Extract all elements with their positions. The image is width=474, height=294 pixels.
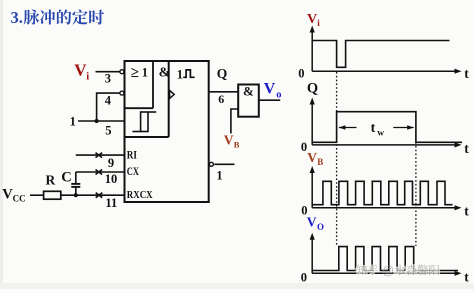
svg-text:11: 11 <box>105 196 117 210</box>
junction node on pin 5 wire <box>95 119 99 123</box>
waveform plot Vi label <box>307 12 320 28</box>
wire to pin 4 <box>97 92 120 94</box>
svg-text:t: t <box>464 141 469 156</box>
Q plot axes <box>301 98 469 157</box>
wire to pin 9 <box>76 154 125 156</box>
wire capacitor to pin11 net <box>75 188 77 196</box>
svg-text:V: V <box>307 12 317 27</box>
svg-text:B: B <box>234 140 240 150</box>
svg-text:1: 1 <box>216 169 222 183</box>
svg-text:3.: 3. <box>11 8 23 27</box>
svg-text:&: & <box>243 84 254 99</box>
U1 internal gate block: AND section divider <box>125 61 169 137</box>
wire to pin 10 <box>76 171 125 173</box>
svg-text:4: 4 <box>105 94 112 108</box>
svg-text:t: t <box>371 121 376 136</box>
svg-text:1: 1 <box>142 65 148 79</box>
svg-text:i: i <box>86 71 89 82</box>
junction node at capacitor bottom <box>74 193 78 197</box>
svg-text:w: w <box>377 128 384 138</box>
resistor R body <box>44 191 61 199</box>
svg-text:3: 3 <box>105 72 111 86</box>
svg-text:≥: ≥ <box>131 65 139 81</box>
svg-text:V: V <box>264 80 276 97</box>
svg-text:Q: Q <box>217 66 228 81</box>
label ≥1 (OR) <box>131 65 148 81</box>
svg-text:V: V <box>307 215 317 230</box>
waveform plot VB label <box>307 150 323 167</box>
svg-text:RI: RI <box>127 150 138 162</box>
svg-text:0: 0 <box>298 67 304 81</box>
svg-text:&: & <box>159 65 171 80</box>
supply label Vcc <box>2 187 25 204</box>
Vi waveform <box>312 41 449 68</box>
svg-text:CC: CC <box>13 194 26 204</box>
svg-text:10: 10 <box>105 172 118 186</box>
Vi plot axes <box>298 26 469 82</box>
pin 3 bubble <box>120 70 124 74</box>
wire pin 1 <box>214 163 234 165</box>
input label Vi <box>74 60 89 82</box>
open-connection mark pin 9 <box>96 153 103 158</box>
svg-text:RXCX: RXCX <box>127 189 153 201</box>
svg-text:@: @ <box>382 265 394 277</box>
svg-text:1: 1 <box>70 114 76 128</box>
svg-text:t: t <box>464 269 469 284</box>
input label VB <box>224 132 240 149</box>
VB plot axes <box>301 166 469 218</box>
svg-text:0: 0 <box>301 270 307 284</box>
svg-text:6: 6 <box>218 92 224 106</box>
svg-text:1: 1 <box>177 68 183 82</box>
title "3.脉冲的定时" <box>11 8 105 27</box>
open-connection mark pin 11 <box>96 193 103 198</box>
svg-text:9: 9 <box>108 156 114 170</box>
svg-text:R: R <box>46 173 56 188</box>
internal output arrow marker <box>170 90 175 98</box>
wire VB to U2 <box>231 109 238 134</box>
monostable U1 74121 outline <box>125 61 209 202</box>
dotted timing line t1 <box>336 72 338 246</box>
AND gate U2 <box>238 85 259 117</box>
Vo gated waveform <box>312 247 458 271</box>
wire pin10 down to capacitor <box>75 172 77 183</box>
pin 1 bubble <box>209 162 213 166</box>
dotted timing line t2 <box>415 112 417 246</box>
svg-text:5: 5 <box>105 124 111 138</box>
tw width annotation <box>339 121 414 138</box>
wire Vcc to resistor <box>30 194 44 196</box>
wire branch pin4-pin5 <box>96 92 98 121</box>
watermark 知乎 @ <box>356 265 439 278</box>
capacitor C plates <box>71 184 80 187</box>
svg-text:V: V <box>224 132 234 147</box>
U1 internal gate block: OR section divider <box>125 61 154 108</box>
wire U2 output Vo <box>259 99 280 101</box>
svg-text:C: C <box>61 170 71 186</box>
svg-text:CX: CX <box>127 166 140 178</box>
svg-text:B: B <box>317 157 323 167</box>
pin 4 bubble <box>120 91 124 95</box>
VB clock waveform <box>312 181 452 204</box>
svg-text:t: t <box>464 203 469 218</box>
svg-text:V: V <box>307 150 317 165</box>
wire 1 to pin 5 <box>78 120 125 122</box>
output label Vo <box>264 80 282 100</box>
svg-text:t: t <box>464 66 469 81</box>
Q waveform <box>312 112 462 143</box>
svg-text:o: o <box>276 89 281 100</box>
Vo plot axes <box>301 233 470 285</box>
wire Vi to pin 3 <box>96 71 120 73</box>
waveform plot Vo label <box>307 215 324 233</box>
svg-text:O: O <box>317 222 324 232</box>
wire resistor to pin 11 <box>61 194 125 196</box>
schmitt trigger hysteresis symbol <box>132 111 156 132</box>
open-connection mark pin 10 <box>96 170 103 175</box>
svg-text:Q: Q <box>307 80 318 96</box>
wire pin 6 to AND gate <box>209 91 239 93</box>
monostable symbol 1⎍ <box>177 68 195 82</box>
